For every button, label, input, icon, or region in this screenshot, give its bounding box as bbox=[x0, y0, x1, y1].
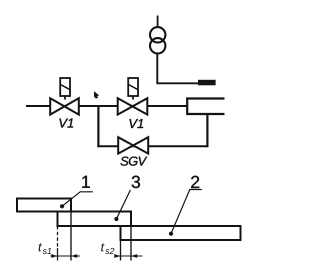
wire bypass riser bbox=[206, 113, 208, 147]
arrow ts1 right bbox=[71, 254, 77, 258]
terminal black bar bbox=[198, 80, 216, 86]
arrow ts2 right bbox=[131, 254, 137, 258]
label V1 (right valve) bbox=[129, 119, 143, 128]
valve V1 right: body bbox=[118, 98, 133, 114]
extension line at bar3 left bbox=[57, 226, 59, 248]
wire bypass bottom bbox=[97, 145, 207, 147]
valve V1 left: solenoid stem bbox=[64, 96, 66, 100]
arrow ts1 left bbox=[51, 254, 57, 258]
callout 1: numeral bbox=[82, 176, 90, 188]
bar 3 bbox=[58, 212, 132, 227]
arrow ts2 left bbox=[114, 254, 120, 258]
label SGV bbox=[121, 157, 148, 166]
valve V1 right: solenoid diagonal bbox=[128, 84, 138, 89]
bar 2 bbox=[121, 226, 241, 240]
callout 3: numeral bbox=[132, 176, 140, 188]
label V1 (left valve) bbox=[59, 119, 73, 128]
callout 1: dot bbox=[60, 204, 64, 208]
label ts1 bbox=[39, 243, 42, 251]
cylinder port C-shape bbox=[187, 99, 224, 115]
valve V1 left: solenoid box bbox=[60, 78, 70, 96]
transformer T1 top stub bbox=[157, 16, 159, 28]
label ts2 bbox=[101, 243, 104, 251]
callout 1: leader bbox=[62, 192, 93, 207]
mouse cursor bbox=[94, 92, 98, 98]
wire transformer lead bbox=[157, 53, 198, 83]
callout 2: dot bbox=[169, 232, 173, 236]
wire main pipe bbox=[26, 105, 187, 107]
valve SGV: body bbox=[118, 137, 133, 153]
bar 1 bbox=[17, 199, 71, 212]
dimension line ts1 bbox=[51, 255, 81, 257]
extension line at bar1 right bbox=[70, 212, 72, 261]
valve V1 right: solenoid box bbox=[128, 78, 138, 96]
dimension line ts2 bbox=[115, 255, 143, 257]
wire junction drop bbox=[97, 106, 99, 147]
extension line at bar2 left bbox=[120, 240, 122, 261]
transformer T1 circles bbox=[150, 27, 165, 42]
valve V1 left: body bbox=[50, 98, 64, 114]
callout 2: numeral bbox=[191, 176, 199, 188]
callout 3: dot bbox=[114, 217, 118, 221]
extension line at bar3 right bbox=[130, 226, 132, 261]
callout 3: leader bbox=[116, 190, 130, 219]
valve V1 right: solenoid stem bbox=[132, 96, 134, 100]
callout 2: leader bbox=[171, 190, 202, 234]
valve V1 left: solenoid diagonal bbox=[60, 84, 70, 89]
